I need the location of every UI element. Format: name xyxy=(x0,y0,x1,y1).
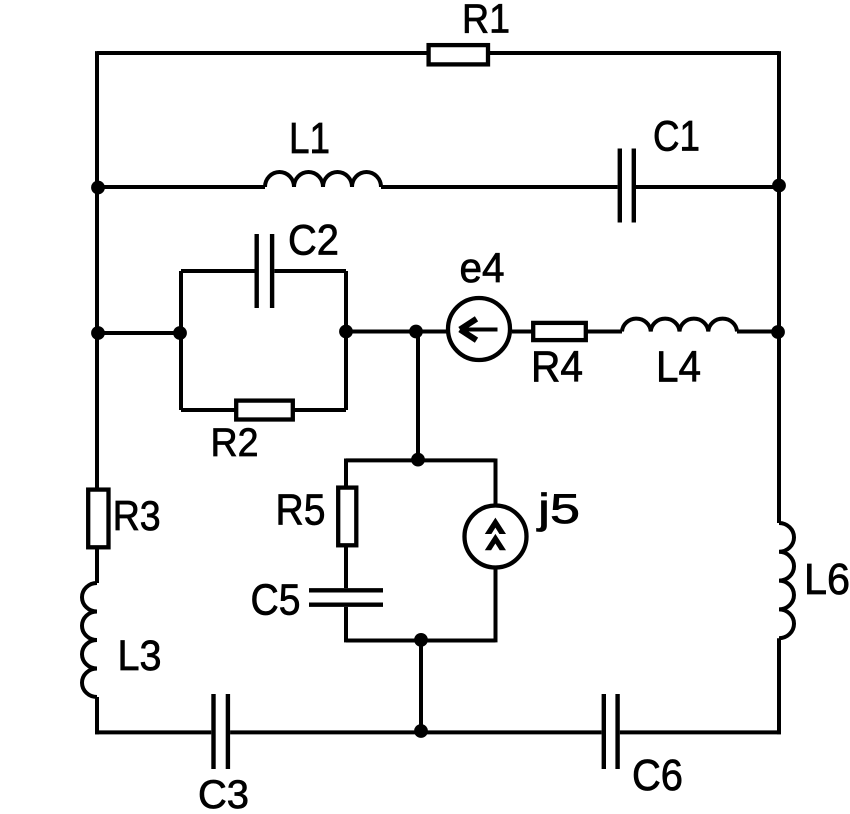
svg-text:C5: C5 xyxy=(251,577,301,625)
node dot central xyxy=(409,325,423,339)
wire top-left segment xyxy=(97,51,428,55)
wire right column lower xyxy=(777,638,781,734)
svg-text:C2: C2 xyxy=(288,217,339,265)
node dot left L1 row xyxy=(91,181,105,195)
wire left column upper xyxy=(95,51,99,489)
wire block left col upper xyxy=(344,459,348,488)
wire central stub lower xyxy=(419,641,423,733)
wire left column mid xyxy=(95,547,99,583)
svg-text:R1: R1 xyxy=(462,0,510,42)
wire block right col upper xyxy=(494,459,498,505)
inductor L1 xyxy=(265,172,381,187)
svg-text:L6: L6 xyxy=(804,556,850,604)
capacitor C6 xyxy=(604,694,618,769)
wire R2 bottom left xyxy=(181,408,236,412)
wire left column lower xyxy=(95,697,99,734)
inductor L6 xyxy=(779,523,794,638)
J5 chevron lower xyxy=(485,534,506,550)
wire e4 to R4 xyxy=(512,330,533,334)
svg-text:C6: C6 xyxy=(632,752,683,800)
resistor R1 xyxy=(429,45,488,64)
capacitor C5 xyxy=(309,590,383,604)
svg-text:C1: C1 xyxy=(653,114,700,161)
wire mid row left xyxy=(97,331,181,335)
node dot mid left xyxy=(91,326,105,340)
source e4 xyxy=(448,298,510,360)
node dot right C1 row xyxy=(772,179,786,193)
wire bottom segment 1 xyxy=(95,730,211,734)
wire R2 bottom right xyxy=(293,408,346,412)
resistor R4 xyxy=(533,323,586,340)
wire bottom segment 3 xyxy=(620,730,781,734)
J5 chevron upper xyxy=(485,518,506,534)
node dot block bottom xyxy=(414,633,428,647)
e4 arrow xyxy=(460,319,498,340)
node dot block top xyxy=(411,453,425,467)
wire top-right segment xyxy=(489,51,779,55)
node dot mid right xyxy=(771,325,785,339)
inductor L4 xyxy=(622,319,737,332)
wire central stub upper xyxy=(416,332,420,461)
svg-text:j5: j5 xyxy=(535,485,580,532)
wire L1 row left xyxy=(97,185,265,189)
capacitor C1 xyxy=(620,149,634,223)
node dot C2 block right xyxy=(339,325,353,339)
capacitor C2 xyxy=(257,234,272,308)
wire L1-C1 middle xyxy=(381,185,618,189)
wire C2 top left xyxy=(181,269,255,273)
svg-text:L4: L4 xyxy=(656,344,701,392)
source J5 xyxy=(465,506,527,568)
svg-text:L1: L1 xyxy=(289,115,330,163)
wire block left col mid xyxy=(344,545,348,588)
wire block bottom xyxy=(346,639,496,643)
wire block top xyxy=(346,458,496,462)
wire L4 to right column xyxy=(737,330,779,334)
resistor R3 xyxy=(88,490,108,548)
svg-text:R2: R2 xyxy=(211,421,259,465)
svg-text:L3: L3 xyxy=(118,632,162,680)
svg-text:R4: R4 xyxy=(531,344,583,392)
wire C2 top right xyxy=(274,269,346,273)
node dot bottom wire xyxy=(414,724,428,738)
svg-text:R3: R3 xyxy=(113,492,161,539)
capacitor C3 xyxy=(214,694,228,769)
resistor R2 xyxy=(236,401,293,420)
svg-text:C3: C3 xyxy=(198,773,249,814)
wire block right col lower xyxy=(494,569,498,642)
wire C2 block left edge xyxy=(179,271,183,410)
wire C2 block right edge xyxy=(344,271,348,410)
resistor R5 xyxy=(338,488,356,546)
wire block left col lower xyxy=(344,607,348,643)
wire C1 right xyxy=(636,185,779,189)
node dot C2 block left xyxy=(173,326,187,340)
svg-text:e4: e4 xyxy=(460,244,505,291)
wire right column upper xyxy=(777,51,781,523)
wire bottom segment 2 xyxy=(230,730,601,734)
svg-text:R5: R5 xyxy=(276,487,326,535)
inductor L3 xyxy=(82,583,97,697)
wire mid row to e4 xyxy=(346,330,447,334)
wire R4 to L4 xyxy=(586,330,622,334)
